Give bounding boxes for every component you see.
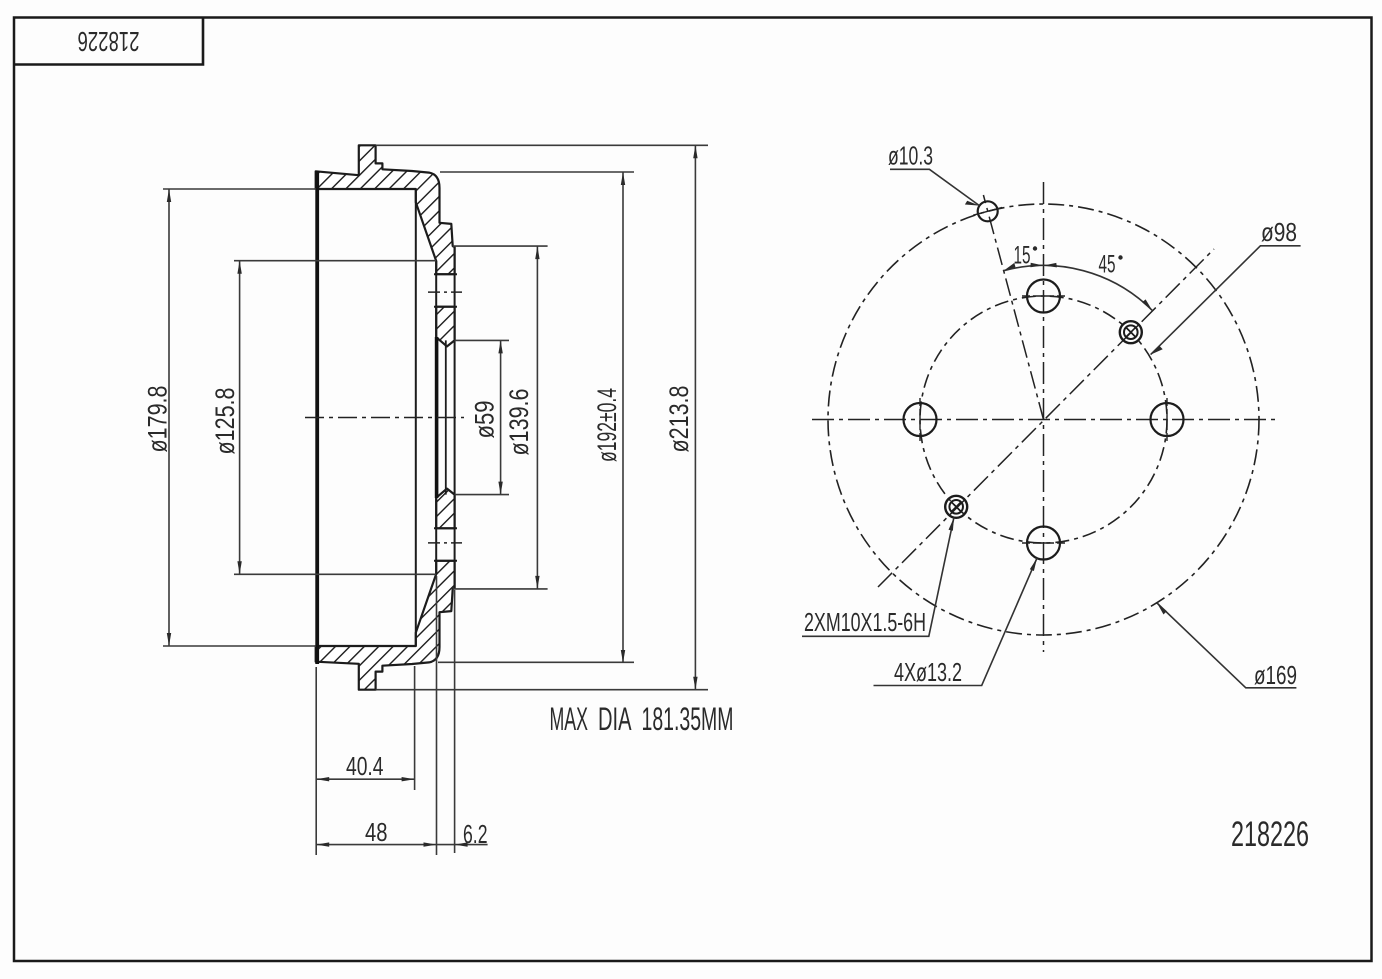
leader+label ø10.3 (888, 141, 979, 206)
svg-text:6.2: 6.2 (463, 819, 488, 849)
svg-text:2XM10X1.5-6H: 2XM10X1.5-6H (804, 607, 926, 637)
svg-text:ø179.8: ø179.8 (143, 386, 173, 453)
dimension 48 (316, 576, 437, 855)
svg-text:45: 45 (1099, 251, 1116, 279)
dimension ø192±0.4 (438, 172, 634, 663)
svg-text:DIA: DIA (598, 701, 632, 737)
drum inner back face line (415, 189, 417, 646)
svg-text:MAX: MAX (550, 701, 589, 737)
leader+label ø98 (1151, 217, 1301, 355)
svg-text:ø192±0.4: ø192±0.4 (592, 388, 622, 462)
bolt hole top ø13.2 (1022, 280, 1065, 313)
label 45deg (1099, 251, 1123, 279)
MAX DIA 181.35MM note (550, 701, 734, 737)
dimension 6.2 (437, 590, 488, 853)
dimension ø213.8 (376, 145, 708, 689)
15 degree axis (983, 195, 1043, 420)
leader+label ø169 (1157, 603, 1297, 690)
main axis centerline (305, 417, 464, 419)
angle dimension arc 15/45 (1004, 263, 1153, 311)
lower bolt hole axis (428, 542, 462, 544)
dimension 40.4 (316, 666, 414, 855)
svg-text:218226: 218226 (78, 26, 140, 57)
small hole ø10.3 (973, 201, 1002, 221)
svg-text:40.4: 40.4 (346, 751, 384, 781)
svg-text:ø125.8: ø125.8 (210, 388, 240, 455)
horizontal centerline (812, 419, 1278, 421)
bolt hole bottom ø13.2 (1022, 527, 1065, 560)
bore chamfer edge line (445, 340, 447, 494)
upper bolt hole axis (428, 291, 462, 293)
dimension ø179.8 (163, 189, 316, 646)
45 degree axis (878, 249, 1214, 587)
bolt hole right ø13.2 (1151, 398, 1184, 441)
svg-text:4Xø13.2: 4Xø13.2 (894, 657, 962, 687)
svg-text:48: 48 (365, 817, 388, 847)
hub outer face line (454, 247, 456, 588)
leader+label 4Xø13.2 (874, 558, 1038, 687)
section lower flange+rim outline (hatched) (316, 561, 455, 690)
dimension ø59 (455, 340, 509, 494)
hub web lower segment (hatched) (436, 489, 454, 529)
svg-text:ø213.8: ø213.8 (664, 386, 694, 453)
dimension ø139.6 (453, 246, 548, 589)
label 15deg (1014, 242, 1038, 270)
dimension ø125.8 (234, 261, 436, 575)
svg-text:ø98: ø98 (1261, 217, 1297, 247)
title text 218226 (rotated 180) (78, 26, 140, 57)
svg-text:15: 15 (1014, 242, 1031, 270)
part number 218226 bottom right (1231, 814, 1309, 854)
drum open-face thick edge line (315, 171, 319, 664)
leader+label 2XM10X1.5-6H (802, 518, 954, 637)
bolt circle ø98 (chain) (920, 296, 1167, 543)
svg-text:ø139.6: ø139.6 (504, 389, 534, 456)
title box top-left (14, 18, 203, 65)
bolt hole left ø13.2 (904, 398, 937, 441)
section bolt hole edges (434, 274, 457, 561)
vertical centerline (1043, 182, 1045, 652)
threaded hole lower M10 (945, 496, 967, 518)
hub mounting face line (thick center part) (435, 261, 437, 574)
hub web upper segment (hatched) (436, 307, 454, 347)
svg-text:ø59: ø59 (470, 401, 500, 439)
svg-text:181.35MM: 181.35MM (642, 701, 734, 737)
outer circle ø169 (chain) (828, 204, 1259, 635)
svg-text:218226: 218226 (1231, 814, 1309, 854)
svg-text:ø10.3: ø10.3 (888, 141, 933, 171)
svg-text:ø169: ø169 (1254, 660, 1297, 690)
threaded hole upper M10 (1120, 321, 1142, 343)
section upper flange+rim outline (hatched) (316, 145, 455, 274)
